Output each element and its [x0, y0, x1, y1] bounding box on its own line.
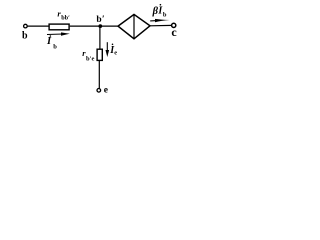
resistor R r_bb'	[49, 24, 69, 30]
terminal e	[97, 89, 101, 93]
terminal c	[172, 23, 176, 27]
svg-text:b: b	[96, 15, 101, 25]
svg-text:b: b	[22, 31, 28, 42]
phasor dot of beta I_b	[160, 4, 162, 6]
wire b to r_bb'	[27, 25, 49, 27]
wire b' down to r_b'e	[99, 26, 101, 49]
wire r_b'e to e	[98, 61, 100, 88]
current arrow I_b	[47, 32, 70, 35]
svg-text:bb′: bb′	[61, 15, 70, 22]
current arrow beta I_b	[150, 19, 169, 22]
controlled current source diamond	[118, 14, 150, 38]
wire r_bb' to diamond through b'	[70, 25, 119, 27]
current arrow I_e	[106, 42, 110, 57]
phasor dot of I_b	[50, 35, 52, 37]
svg-text:b′e: b′e	[86, 55, 94, 62]
svg-text:b: b	[163, 11, 167, 18]
svg-text:b: b	[53, 44, 57, 51]
svg-text:c: c	[171, 25, 177, 39]
phasor dot of I_e	[112, 44, 114, 46]
svg-text:′: ′	[102, 15, 105, 25]
svg-text:e: e	[114, 49, 117, 56]
svg-text:e: e	[104, 86, 108, 96]
resistor r_b'e vertical	[97, 49, 102, 60]
node b' junction dot	[98, 24, 102, 28]
terminal b	[24, 24, 28, 28]
wire diamond to c	[150, 24, 172, 26]
